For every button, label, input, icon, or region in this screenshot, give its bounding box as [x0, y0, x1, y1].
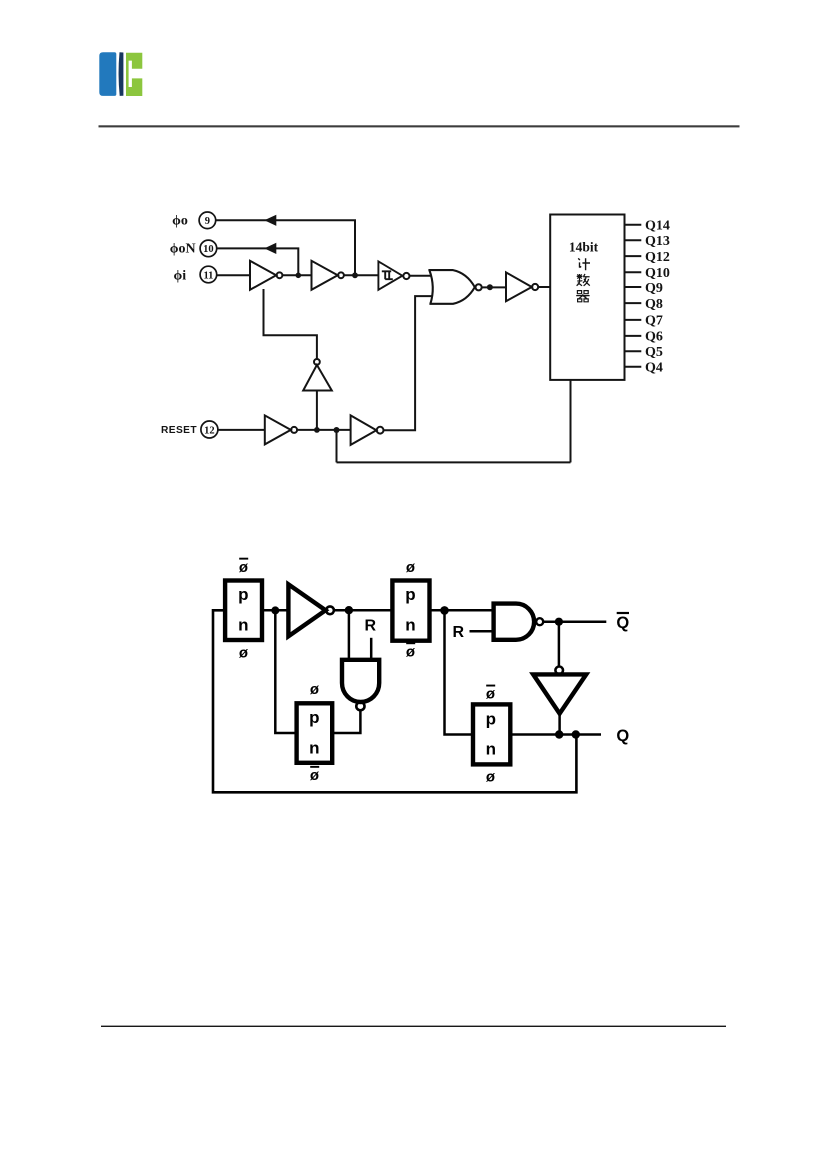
wire N2 to Qbar — [543, 620, 606, 623]
svg-text:ø: ø — [239, 559, 249, 576]
wire bottom feedback — [337, 461, 571, 463]
wire U8 to U9 — [297, 429, 351, 431]
svg-text:Q4: Q4 — [645, 361, 663, 376]
counter label CJK shu — [577, 274, 590, 286]
Q9 stub — [625, 281, 663, 296]
junction dot reset-b — [334, 427, 340, 433]
wire G1 to TG3 — [334, 609, 392, 612]
svg-text:Q7: Q7 — [645, 314, 663, 329]
wire U7 to reset line — [316, 391, 318, 430]
footer rule — [101, 1026, 726, 1027]
logo blue block — [99, 52, 116, 96]
svg-text:ø: ø — [310, 767, 320, 784]
svg-text:ø: ø — [406, 559, 416, 576]
junction dot Q feedback — [572, 730, 580, 738]
junction dot TG1 output — [271, 606, 279, 614]
junction dot NOR output — [487, 284, 493, 290]
svg-text:p: p — [238, 585, 248, 604]
node phi-oN label — [170, 241, 196, 256]
counter label CJK qi — [576, 291, 589, 302]
Q14 stub — [625, 219, 670, 234]
Q6 stub — [625, 330, 663, 345]
Q12 stub — [625, 250, 670, 265]
schmitt inverter U3 — [378, 261, 409, 289]
junction dot TG3 output — [440, 606, 449, 615]
clock label phi below TG1 — [239, 644, 249, 661]
node phi-i label — [173, 268, 186, 283]
Q13 stub — [625, 234, 670, 249]
svg-text:9: 9 — [205, 216, 210, 227]
Q10 stub — [625, 266, 670, 281]
svg-text:RESET: RESET — [161, 425, 197, 436]
wire TG3-tap down to TG4 — [445, 610, 473, 734]
Q5 stub — [625, 345, 663, 360]
wire pin11 to U1 — [217, 274, 250, 276]
svg-text:11: 11 — [203, 270, 213, 281]
logo green C — [126, 53, 142, 96]
arrowhead on phi-oN wire — [264, 243, 276, 254]
svg-text:14bit: 14bit — [569, 239, 599, 254]
clock label phi above TG3 — [406, 559, 416, 576]
svg-text:ϕoN: ϕoN — [170, 241, 196, 256]
clock label phibar below TG2 — [310, 766, 320, 784]
wire U1 feedback down — [264, 289, 317, 359]
R label at N2 — [453, 624, 465, 641]
wire NOR to U5 — [482, 286, 506, 288]
svg-text:Q: Q — [616, 727, 629, 745]
transmission gate TG3 — [392, 581, 429, 641]
NAND gate N1 vertical — [342, 660, 379, 711]
svg-text:Q5: Q5 — [645, 345, 663, 360]
inverter G1 — [288, 584, 334, 636]
svg-text:p: p — [486, 710, 496, 729]
clock label phibar above TG4 — [486, 685, 496, 703]
wire phi-o horizontal — [216, 220, 355, 275]
clock label phi below TG4 — [486, 769, 496, 786]
svg-text:Q: Q — [616, 614, 629, 632]
junction dot N2 output — [555, 618, 563, 626]
clock label phi above TG2 — [310, 681, 320, 698]
svg-text:Q13: Q13 — [645, 234, 670, 249]
RESET label — [161, 425, 197, 436]
NAND gate N2 horizontal — [494, 604, 544, 640]
pin 10 — [200, 240, 217, 257]
R label at NAND1 — [365, 618, 377, 635]
wire U1 to U2 — [282, 274, 311, 276]
14bit counter block U6 — [550, 215, 624, 380]
svg-text:Q6: Q6 — [645, 330, 663, 345]
junction dot G1 output — [345, 606, 353, 614]
svg-text:ø: ø — [406, 644, 416, 661]
wire G2 to Q line — [558, 714, 561, 735]
svg-text:Q8: Q8 — [645, 297, 663, 312]
junction dot reset-a — [314, 427, 320, 433]
svg-text:n: n — [486, 740, 496, 759]
wire TG1 to G1 — [262, 609, 288, 612]
transmission gate TG2 — [297, 703, 333, 763]
wire TG4 to Q — [510, 733, 601, 736]
header rule — [99, 125, 740, 127]
svg-text:n: n — [309, 738, 319, 757]
svg-text:R: R — [453, 624, 465, 641]
wire U9 to NOR lower input — [384, 296, 432, 430]
junction dot phi-oN tap — [296, 273, 302, 279]
wire counter bottom stub — [570, 380, 572, 463]
wire feedback loop left-bottom-right — [213, 610, 576, 792]
wire TG1-tap down to TG2 — [275, 610, 296, 733]
svg-text:ø: ø — [239, 644, 249, 661]
transmission gate TG1 — [225, 581, 262, 641]
wire TG3 to N2 — [430, 609, 494, 612]
junction dot phi-o tap — [352, 272, 358, 278]
wire Qbar-tap down to G2 — [558, 622, 561, 667]
Q label — [616, 727, 629, 745]
svg-text:Q14: Q14 — [645, 219, 670, 234]
svg-text:n: n — [405, 615, 415, 634]
svg-text:Q9: Q9 — [645, 281, 663, 296]
junction dot G2 output — [555, 730, 563, 738]
svg-text:p: p — [309, 708, 319, 727]
Q4 stub — [625, 361, 663, 376]
Q7 stub — [625, 314, 663, 329]
inverter U7 up — [303, 359, 332, 391]
pin 12 — [201, 421, 218, 438]
svg-text:p: p — [405, 585, 415, 604]
wire pin12 to U8 — [218, 429, 265, 431]
pin 11 — [200, 266, 217, 283]
svg-text:10: 10 — [203, 244, 214, 255]
svg-text:Q10: Q10 — [645, 266, 670, 281]
svg-text:ϕo: ϕo — [172, 213, 188, 228]
wire U2 to U3 — [344, 274, 378, 276]
svg-text:ø: ø — [310, 681, 320, 698]
clock label phibar below TG3 — [406, 642, 416, 660]
NOR gate U4 — [428, 270, 481, 304]
wire N1 output to TG2 — [332, 710, 360, 733]
inverter U9 — [351, 415, 384, 445]
inverter U2 — [312, 261, 344, 290]
wire U5 to counter — [538, 286, 550, 288]
transmission gate TG4 — [473, 704, 510, 764]
svg-text:R: R — [365, 618, 377, 635]
inverter U8 — [265, 415, 297, 444]
wire R to NAND1 — [370, 638, 373, 660]
Q8 stub — [625, 297, 663, 312]
svg-text:ϕi: ϕi — [173, 268, 186, 283]
wire phi-oN horizontal — [217, 248, 299, 275]
inverter G2 down — [533, 667, 586, 714]
counter label CJK ji — [578, 258, 590, 270]
pin 9 — [199, 212, 216, 229]
svg-text:ø: ø — [486, 686, 496, 703]
svg-text:12: 12 — [204, 425, 215, 436]
inverter U1 — [250, 261, 282, 290]
inverter U5 — [506, 272, 538, 301]
wire U3 to NOR — [409, 275, 430, 277]
arrowhead on phi-o wire — [264, 215, 276, 226]
Qbar label — [616, 612, 629, 632]
wire R to N2 — [470, 630, 494, 633]
svg-text:n: n — [238, 615, 248, 634]
svg-text:ø: ø — [486, 769, 496, 786]
node phi-o label — [172, 213, 188, 228]
wire G1-tap down to NAND1 — [348, 610, 351, 659]
logo navy bar — [119, 52, 124, 96]
clock label phibar above TG1 — [239, 558, 249, 576]
svg-text:Q12: Q12 — [645, 250, 670, 265]
wire reset-b down — [336, 430, 338, 462]
